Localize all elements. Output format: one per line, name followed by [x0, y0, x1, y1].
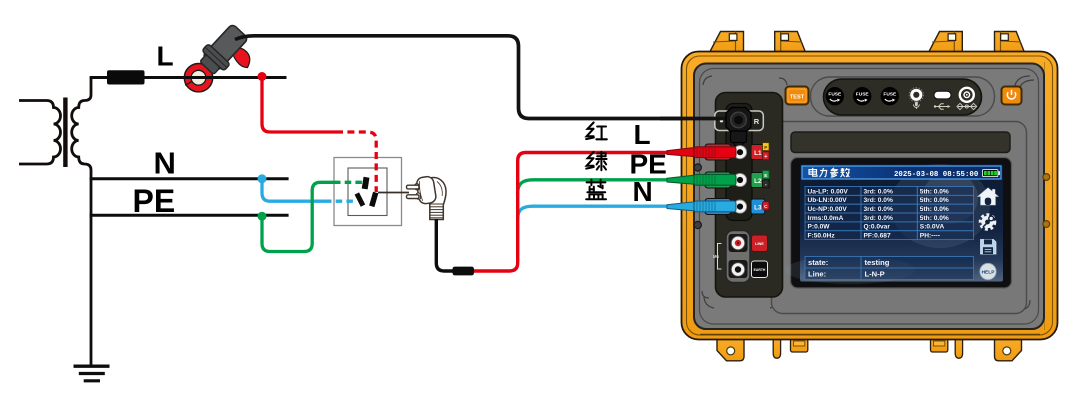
svg-text:L2: L2 — [754, 178, 762, 185]
LCD title bar — [802, 166, 1001, 179]
latch tab 1 — [710, 32, 744, 53]
hinge pin right — [955, 339, 962, 358]
transformer T1 — [19, 78, 91, 171]
wire: red test lead from ferrite to L1 — [474, 153, 667, 272]
TEST button — [786, 87, 809, 105]
ferrite bead — [453, 267, 475, 276]
svg-text:TEST: TEST — [790, 94, 805, 100]
screw bottom-left — [694, 221, 701, 228]
svg-text:FUSE: FUSE — [883, 91, 897, 97]
svg-text:testing: testing — [865, 258, 890, 267]
svg-text:EARTH: EARTH — [754, 268, 766, 272]
current clamp CT1 — [184, 21, 251, 92]
svg-text:PE: PE — [133, 183, 176, 219]
svg-text:N: N — [154, 146, 176, 181]
svg-text:Q:0.0var: Q:0.0var — [864, 224, 891, 231]
screw top-left — [694, 164, 701, 171]
svg-text:5th: 0.0%: 5th: 0.0% — [920, 206, 949, 213]
svg-text:Line:: Line: — [808, 270, 826, 279]
case body orange — [682, 52, 1058, 340]
svg-text:3rd: 0.0%: 3rd: 0.0% — [864, 197, 893, 204]
plug P1 — [407, 176, 447, 220]
power quality analyzer: case shell — [682, 32, 1058, 361]
label red (hong) — [586, 123, 607, 140]
socket slot E (top) — [362, 177, 370, 190]
svg-text:5th: 0.0%: 5th: 0.0% — [920, 197, 949, 204]
fuse holder 3 — [881, 87, 899, 105]
svg-text:state:: state: — [808, 258, 828, 267]
LCD display — [785, 164, 1003, 284]
svg-text:M6: M6 — [713, 254, 719, 259]
blue probe into L3 — [667, 201, 736, 212]
svg-text:R: R — [754, 117, 760, 126]
terminal L3 blue — [705, 199, 769, 215]
wire: blue test lead to L3 — [518, 206, 668, 220]
svg-text:P: P — [764, 145, 767, 150]
latch keeper right — [931, 339, 948, 352]
svg-text:F:50.0Hz: F:50.0Hz — [808, 233, 836, 240]
fuse holder 2 — [853, 87, 871, 105]
svg-text:3rd: 0.0%: 3rd: 0.0% — [864, 206, 893, 213]
screw bottom-right — [1043, 221, 1050, 228]
socket inner frame — [348, 168, 387, 216]
svg-text:HELP: HELP — [982, 270, 996, 276]
svg-text:Uc-NP:0.00V: Uc-NP:0.00V — [808, 206, 848, 213]
speaker bar above screen — [791, 132, 1010, 153]
label blue (lan) — [586, 180, 606, 200]
panel molded corner arcs — [702, 76, 1034, 310]
svg-text:3rd: 0.0%: 3rd: 0.0% — [864, 188, 893, 195]
foot left — [717, 339, 744, 361]
svg-text:L: L — [157, 40, 174, 71]
latch tab 3 — [929, 32, 963, 53]
svg-text:S:0.0VA: S:0.0VA — [920, 224, 945, 231]
socket slot N (left) — [355, 192, 366, 206]
icon HELP — [980, 263, 996, 279]
mic connector — [909, 88, 923, 109]
svg-text:PF:0.687: PF:0.687 — [864, 233, 891, 240]
green probe into L2 — [667, 174, 736, 185]
icon save — [981, 240, 997, 255]
socket outer frame — [334, 158, 402, 226]
wire: clamp cable over case into jack — [660, 117, 733, 121]
socket slot L (right) — [369, 192, 378, 207]
wire: green from PE node looping to socket — [262, 182, 334, 251]
power button — [1002, 87, 1022, 105]
terminal L1 red — [705, 143, 769, 161]
svg-text:L1: L1 — [754, 150, 762, 157]
wire: vertical from transformer to ground — [90, 170, 93, 366]
wire: blue from N node to socket — [262, 179, 325, 201]
svg-text:+: + — [764, 154, 767, 160]
latch tab 2 — [775, 32, 806, 53]
svg-text:-: - — [765, 182, 767, 188]
battery icon — [983, 170, 1001, 177]
svg-text:LINE: LINE — [755, 242, 764, 246]
LINE/EARTH block — [713, 231, 768, 283]
svg-text:PE: PE — [630, 148, 667, 179]
svg-text:L-N-P: L-N-P — [865, 270, 885, 279]
svg-text:N: N — [633, 176, 653, 207]
latch keeper left — [791, 339, 808, 352]
wire: PE line — [90, 214, 289, 217]
label green (lv) — [586, 152, 606, 170]
foot right — [995, 339, 1022, 361]
icon home — [978, 188, 998, 205]
wire: socket to plug pins — [378, 192, 409, 194]
wire: clamp cable to device — [235, 36, 727, 119]
svg-text:E: E — [764, 173, 767, 178]
wire: L line — [90, 76, 287, 79]
wire: plug cord (black) — [436, 219, 453, 271]
screen bezel — [791, 158, 1012, 289]
latch tab 4 — [995, 32, 1025, 53]
svg-text:FUSE: FUSE — [828, 91, 842, 97]
svg-text:PH:----: PH:---- — [920, 233, 940, 240]
wire: N line — [90, 177, 289, 180]
svg-text:L3: L3 — [754, 204, 762, 211]
node N (blue dot) — [258, 174, 267, 183]
ground — [74, 366, 110, 381]
svg-text:Ua-LP: 0.00V: Ua-LP: 0.00V — [808, 188, 849, 195]
node PE (green dot) — [258, 212, 267, 221]
svg-text:FUSE: FUSE — [856, 91, 870, 97]
wire: green test lead to L2 — [518, 180, 668, 194]
svg-text:L: L — [634, 119, 651, 150]
front panel gray — [694, 64, 1044, 330]
screw top-right — [1043, 174, 1050, 181]
red probe into L1 — [667, 147, 736, 158]
LCD title glyphs dianli canshu — [809, 168, 849, 177]
fuse F1 on L line — [107, 70, 145, 84]
svg-text:P:0.0W: P:0.0W — [808, 224, 831, 231]
terminal column — [726, 104, 752, 221]
icon settings gear — [980, 215, 995, 230]
control bar recess — [811, 77, 995, 116]
svg-text:Irms:0.0mA: Irms:0.0mA — [808, 215, 844, 222]
svg-text:Ub-LN:0.00V: Ub-LN:0.00V — [808, 197, 848, 204]
fuse holder 1 — [826, 87, 844, 105]
svg-text:2025-03-08 08:55:00: 2025-03-08 08:55:00 — [894, 171, 979, 179]
clamp input plate — [715, 111, 764, 131]
terminal L2 green — [705, 171, 769, 188]
svg-text:5th: 0.0%: 5th: 0.0% — [920, 215, 949, 222]
svg-text:5th: 0.0%: 5th: 0.0% — [920, 188, 949, 195]
clamp input jack — [726, 108, 751, 148]
node L (red dot) — [258, 72, 267, 81]
aux connector — [957, 88, 977, 110]
main recess around screen — [772, 122, 1027, 314]
USB port — [934, 91, 951, 109]
hinge pin left — [773, 339, 780, 358]
LCD state box — [805, 257, 974, 280]
LCD measurement table — [805, 187, 974, 240]
control bar — [824, 79, 982, 115]
left connector panel — [716, 93, 783, 298]
wire: red from L node to socket (solid then dashed) — [262, 77, 336, 133]
svg-text:3rd: 0.0%: 3rd: 0.0% — [864, 215, 893, 222]
